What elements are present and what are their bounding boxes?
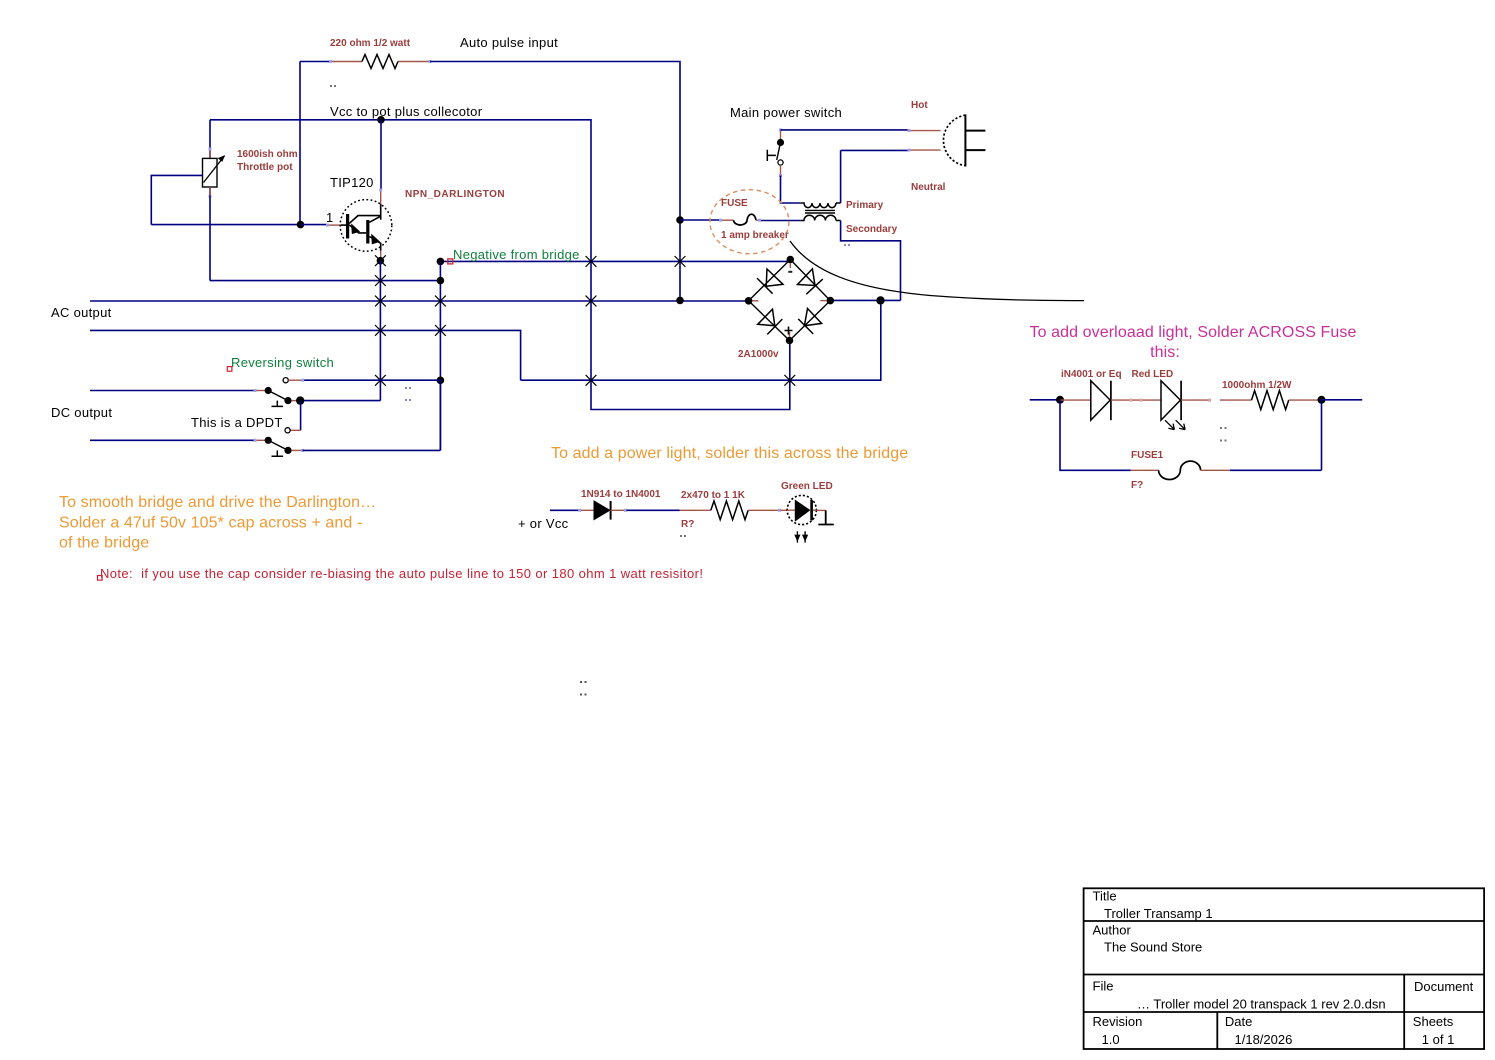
wire switch to primary (781, 176, 801, 204)
svg-text:To add overloaad light, Solder: To add overloaad light, Solder ACROSS Fu… (1029, 324, 1356, 341)
wire DC line 1 (90, 389, 267, 392)
junction dot bridge right (820, 297, 834, 305)
junction dot Vcc/collector (377, 116, 385, 124)
svg-text:Title: Title (1093, 889, 1117, 904)
svg-text:Green LED: Green LED (781, 481, 833, 492)
LED D3 green (787, 495, 816, 524)
crossing X marks x680 and bridge bottom column (675, 256, 796, 386)
junction dot overload left (1056, 396, 1064, 404)
transformer T1 (801, 203, 841, 221)
wire diode to LED (1111, 399, 1161, 402)
label Hot (911, 100, 928, 111)
wire Vcc rail (210, 120, 790, 410)
resistor R1 220 ohm (329, 55, 432, 69)
ref label F? (1131, 480, 1143, 491)
wire auto pulse left segment (300, 62, 331, 225)
label + or Vcc (518, 516, 569, 531)
crossing X marks x591 column (586, 256, 597, 386)
svg-text:AC output: AC output (51, 305, 112, 320)
title block texts (1093, 889, 1474, 1048)
wire overload left (1030, 399, 1060, 401)
value label Red LED (1132, 369, 1174, 380)
note text To add a power light (551, 445, 908, 462)
connector J1 AC plug (943, 114, 985, 166)
wire negative from bridge (440, 260, 790, 262)
label Secondary (846, 224, 898, 235)
svg-text:1: 1 (326, 210, 334, 225)
svg-text:Main power switch: Main power switch (730, 105, 842, 120)
value label 1N914 to 1N4001 (581, 489, 661, 500)
svg-text:1.0: 1.0 (1102, 1032, 1120, 1047)
svg-text:Vcc to pot plus collecotor: Vcc to pot plus collecotor (330, 104, 483, 119)
ref label FUSE1 (1131, 450, 1164, 461)
svg-text:Author: Author (1093, 923, 1132, 938)
annotation dashed circle around fuse (710, 190, 789, 254)
junction dot x680 on AC line (676, 297, 684, 305)
svg-text:Date: Date (1225, 1014, 1252, 1029)
wire power light left (550, 509, 594, 512)
label Reversing switch (231, 355, 334, 370)
wire pot wiper loop (151, 175, 300, 224)
bridge rectifier D1 2A1000v (749, 260, 831, 341)
node label AC output (51, 305, 112, 320)
svg-text:To add a power light, solder t: To add a power light, solder this across… (551, 445, 908, 462)
svg-text:Throttle pot: Throttle pot (237, 162, 293, 173)
diode top-left (757, 269, 783, 294)
ref label R? (681, 519, 694, 530)
label 1 amp breaker (721, 230, 789, 241)
dots artifact secondary (844, 244, 850, 246)
svg-text:Document: Document (1414, 979, 1474, 994)
LED D5 red (1161, 381, 1185, 430)
value label Green LED (781, 481, 833, 492)
dots artifact R (680, 535, 686, 537)
diode bottom-left (758, 309, 783, 334)
svg-text:1N914 to 1N4001: 1N914 to 1N4001 (581, 489, 661, 500)
svg-text:this:: this: (1150, 344, 1180, 361)
junction dot 440/380 (437, 377, 445, 385)
wire dot to diode (1060, 399, 1091, 401)
junction dot negative wire left end (437, 258, 445, 266)
switch S2 pole 2 (265, 428, 305, 457)
wire crossover to pole 2 (290, 401, 300, 431)
wire LED to resistor (1181, 399, 1251, 402)
wire fuse to right (1201, 400, 1322, 471)
label Neutral (911, 182, 946, 193)
svg-text:Troller Transamp 1: Troller Transamp 1 (1104, 906, 1213, 921)
label This is a DPDT (191, 415, 283, 430)
junction dot bridge left (745, 297, 759, 305)
wire AC line 2 (90, 300, 881, 380)
dots artifact (330, 85, 336, 87)
potentiometer R2 throttle pot (203, 148, 225, 198)
wire auto pulse right segment (430, 62, 680, 301)
value label 220 ohm 1/2 watt (330, 38, 411, 49)
wire AC line 1 (90, 300, 749, 302)
junction dot bridge top (787, 256, 795, 273)
wire resistor to LED (748, 509, 787, 512)
svg-text:Sheets: Sheets (1413, 1014, 1454, 1029)
transistor Q1 TIP120 NPN darlington (340, 200, 392, 252)
diode bottom-right (798, 309, 821, 334)
net marker square (448, 259, 453, 264)
svg-text:Solder a 47uf 50v 105* cap acr: Solder a 47uf 50v 105* cap across + and … (59, 515, 362, 532)
value label iN4001 or Eq (1061, 369, 1122, 380)
label Main power switch (730, 105, 842, 120)
svg-text:Primary: Primary (846, 200, 884, 211)
annotation pointer curve (790, 241, 1084, 301)
title block (1084, 888, 1485, 1049)
wire emitter stub (380, 251, 382, 261)
svg-text:Auto pulse input: Auto pulse input (460, 35, 558, 50)
resistor R4 1000ohm (1252, 391, 1289, 410)
crossing X marks left column (375, 275, 446, 386)
svg-text:Note: if you use the cap cons: Note: if you use the cap consider re-bia… (100, 566, 703, 581)
node label Auto pulse input (460, 35, 558, 50)
ground symbol (816, 510, 833, 524)
value label 1600ish ohm Throttle pot (237, 149, 298, 173)
svg-text:Revision: Revision (1093, 1014, 1143, 1029)
wire collector stub (379, 120, 382, 204)
value label 2A1000v (738, 349, 779, 360)
svg-text:Secondary: Secondary (846, 224, 898, 235)
svg-text:The Sound Store: The Sound Store (1104, 940, 1202, 955)
junction dot 440/280 (437, 277, 445, 285)
diode top-right (798, 269, 823, 294)
note text To smooth bridge (59, 494, 376, 552)
svg-text:1 amp breaker: 1 amp breaker (721, 230, 789, 241)
part label NPN_DARLINGTON (405, 189, 505, 200)
wire hot line (781, 129, 941, 132)
svg-text:… Troller model 20 transpack 1: … Troller model 20 transpack 1 rev 2.0.d… (1137, 996, 1386, 1011)
svg-text:NPN_DARLINGTON: NPN_DARLINGTON (405, 189, 505, 200)
pin number 1 (326, 210, 334, 225)
wire overload right (1322, 399, 1363, 401)
value label 1000ohm 1/2W (1222, 380, 1292, 391)
svg-text:2x470 to 1 1K: 2x470 to 1 1K (681, 490, 746, 501)
svg-text:2A1000v: 2A1000v (738, 349, 779, 360)
wire neutral line (841, 149, 941, 152)
junction dot x880 (876, 296, 884, 304)
wire bridge right to secondary (830, 299, 900, 301)
switch S2 pole 1 (265, 378, 441, 407)
value label 2x470 to 1 1K (681, 490, 746, 501)
node label DC output (51, 405, 112, 420)
resistor R3 2x470 to 1 1K (711, 501, 748, 520)
label FUSE (721, 198, 748, 209)
svg-text:1000ohm 1/2W: 1000ohm 1/2W (1222, 380, 1292, 391)
svg-text:Negative from bridge: Negative from bridge (453, 247, 580, 262)
wire pot bottom lead down to y280 rail (210, 187, 440, 281)
wire diode to resistor (611, 509, 711, 512)
svg-text:File: File (1093, 979, 1114, 994)
svg-text:R?: R? (681, 519, 694, 530)
wire secondary right lead (841, 221, 901, 301)
svg-text:DC output: DC output (51, 405, 112, 420)
svg-text:Red LED: Red LED (1132, 369, 1174, 380)
note marker square (98, 576, 103, 581)
junction dot crossover (296, 396, 304, 404)
wire primary right to neutral (840, 150, 842, 203)
junction dot fuse left (676, 216, 684, 224)
wire emitter vertical down (300, 261, 380, 401)
net marker square reversing (227, 367, 232, 372)
svg-text:Hot: Hot (911, 100, 928, 111)
part label TIP120 (330, 175, 374, 190)
svg-text:220 ohm 1/2 watt: 220 ohm 1/2 watt (330, 38, 411, 49)
svg-text:To smooth bridge and drive the: To smooth bridge and drive the Darlingto… (59, 494, 376, 511)
wire overload bottom left (1060, 400, 1159, 471)
fuse F1 1 amp breaker (680, 214, 801, 225)
switch S1 main power (767, 128, 784, 177)
note text re-biasing (100, 566, 703, 581)
dots artifact overload (1220, 427, 1227, 442)
label Primary (846, 200, 884, 211)
wire resistor to right dot (1289, 399, 1322, 401)
svg-text:FUSE: FUSE (721, 198, 748, 209)
junction dot overload right (1318, 396, 1326, 404)
wire node A vertical x440 (439, 261, 441, 450)
svg-text:TIP120: TIP120 (330, 175, 374, 190)
LED arrows down (795, 531, 808, 542)
svg-text:iN4001 or Eq: iN4001 or Eq (1061, 369, 1122, 380)
junction dot emitter with X (375, 255, 386, 266)
svg-text:FUSE1: FUSE1 (1131, 450, 1164, 461)
svg-text:1 of 1: 1 of 1 (1422, 1032, 1455, 1047)
note text To add overloaad light (1029, 324, 1356, 361)
svg-text:Neutral: Neutral (911, 182, 946, 193)
node label Vcc to pot plus collecotor (330, 104, 483, 119)
diode D4 iN4001 (1091, 381, 1111, 421)
wire base stub (301, 224, 342, 227)
svg-text:Reversing switch: Reversing switch (231, 355, 334, 370)
svg-text:This is a DPDT: This is a DPDT (191, 415, 283, 430)
wire DC line 2 (90, 439, 267, 442)
diode D2 1N914 (594, 501, 611, 520)
dots artifact center page (580, 681, 587, 696)
fuse F2 FUSE1 (1159, 461, 1201, 479)
junction dot bridge bottom plus mark (785, 327, 794, 345)
svg-text:of the bridge: of the bridge (59, 535, 149, 552)
svg-text:F?: F? (1131, 480, 1143, 491)
junction dot base node (297, 221, 305, 229)
net label Negative from bridge (453, 247, 580, 262)
dots artifact near switch (405, 387, 411, 401)
wire pot top lead (209, 120, 211, 159)
svg-text:1600ish ohm: 1600ish ohm (237, 149, 298, 160)
svg-text:+ or Vcc: + or Vcc (518, 516, 569, 531)
svg-text:1/18/2026: 1/18/2026 (1235, 1032, 1293, 1047)
wire pole 2 to node A (303, 380, 441, 450)
